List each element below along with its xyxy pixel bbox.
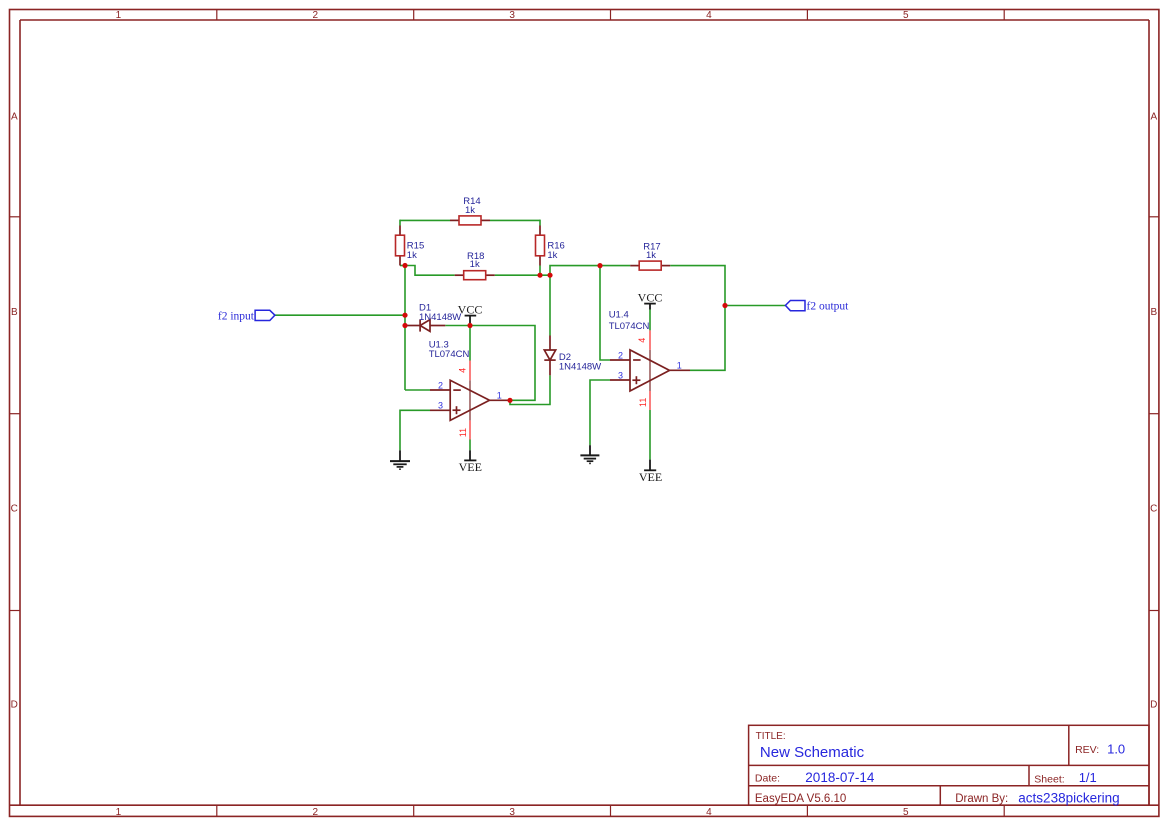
svg-text:Drawn By:: Drawn By:	[955, 793, 1008, 805]
svg-text:1: 1	[497, 391, 502, 401]
svg-text:3: 3	[509, 10, 515, 21]
power flag VCC (U1.3)	[458, 303, 483, 326]
svg-text:3: 3	[509, 807, 515, 818]
svg-text:4: 4	[706, 10, 712, 21]
svg-text:1k: 1k	[407, 250, 417, 261]
node R15 bottom	[402, 263, 407, 268]
svg-text:1: 1	[116, 807, 122, 818]
svg-text:A: A	[1150, 112, 1157, 123]
resistor R14	[450, 196, 490, 225]
wire U1.3 VEE	[469, 440, 471, 451]
svg-text:VCC: VCC	[458, 303, 483, 317]
svg-text:Date:: Date:	[755, 773, 780, 785]
junction dots	[402, 263, 727, 403]
svg-text:1: 1	[116, 10, 122, 21]
svg-text:New Schematic: New Schematic	[760, 744, 865, 761]
svg-text:VEE: VEE	[639, 470, 662, 484]
wire R16 top drop	[539, 220, 541, 226]
netflag f2 output	[785, 300, 849, 312]
node VCC-pin4-D1	[467, 323, 472, 328]
node D2 top	[547, 273, 552, 278]
svg-text:acts238pickering: acts238pickering	[1018, 791, 1119, 806]
resistor R16	[536, 226, 565, 266]
diode D1	[405, 319, 445, 331]
svg-text:C: C	[11, 504, 18, 515]
node R16 bottom	[537, 273, 542, 278]
svg-text:VCC: VCC	[638, 291, 663, 305]
svg-text:C: C	[1150, 504, 1157, 515]
svg-text:2018-07-14: 2018-07-14	[805, 770, 875, 785]
wire left vertical bus	[404, 266, 406, 391]
svg-text:TL074CN: TL074CN	[429, 349, 470, 360]
svg-text:2: 2	[313, 10, 319, 21]
svg-text:4: 4	[706, 807, 712, 818]
svg-text:REV:: REV:	[1075, 744, 1099, 756]
wire U1.4 output	[690, 306, 725, 371]
svg-text:f2 input: f2 input	[218, 311, 255, 323]
svg-text:B: B	[1150, 307, 1157, 318]
svg-text:1k: 1k	[470, 259, 480, 270]
wire node to R17	[550, 266, 630, 276]
svg-text:11: 11	[638, 398, 648, 407]
resistor R18	[455, 251, 495, 280]
svg-text:D: D	[11, 700, 18, 711]
wire feedback U1.3	[470, 326, 535, 401]
title block	[749, 725, 1149, 805]
svg-text:3: 3	[618, 371, 623, 381]
svg-text:1k: 1k	[465, 205, 475, 216]
svg-text:2: 2	[618, 350, 623, 360]
wire R17 right to f2 output	[670, 266, 785, 306]
ground (U1.4 pin3)	[580, 445, 599, 463]
wire R16 bottom green	[539, 266, 541, 276]
wire f2 input	[275, 314, 405, 316]
svg-text:5: 5	[903, 807, 909, 818]
svg-text:A: A	[11, 112, 18, 123]
op-amp U1.3	[429, 339, 510, 439]
wire top rail left	[400, 219, 450, 221]
wire U1.3 pin4	[469, 326, 471, 361]
title block text	[755, 731, 1125, 806]
svg-text:U1.4: U1.4	[609, 310, 629, 321]
svg-text:Sheet:: Sheet:	[1034, 774, 1064, 786]
netflag f2 input	[218, 310, 275, 322]
svg-text:5: 5	[903, 10, 909, 21]
svg-text:4: 4	[637, 338, 647, 343]
wire top rail right	[490, 219, 540, 221]
svg-text:EasyEDA V5.6.10: EasyEDA V5.6.10	[755, 793, 846, 805]
svg-text:3: 3	[438, 401, 443, 411]
node f2input-bus	[402, 313, 407, 318]
node U1.3 output	[507, 398, 512, 403]
svg-text:VEE: VEE	[459, 460, 482, 474]
svg-text:f2 output: f2 output	[807, 300, 850, 312]
svg-text:2: 2	[438, 380, 443, 390]
wire D2 bottom to output	[510, 375, 550, 404]
svg-text:4: 4	[458, 368, 468, 373]
power flag VEE (U1.3)	[459, 450, 482, 474]
svg-text:1N4148W: 1N4148W	[419, 312, 461, 323]
wire U1.4 VCC	[649, 310, 651, 331]
wire D1 anode to node	[445, 325, 470, 327]
svg-text:1k: 1k	[547, 250, 557, 261]
wire jog to R18	[405, 266, 455, 276]
svg-text:1k: 1k	[646, 250, 656, 261]
node R17 left	[597, 263, 602, 268]
diode D2	[544, 336, 555, 376]
svg-text:TL074CN: TL074CN	[609, 321, 650, 332]
svg-text:1N4148W: 1N4148W	[559, 362, 601, 373]
wire to U1.4 pin2	[600, 266, 610, 360]
wire D2 top	[549, 275, 551, 335]
resistor R15	[396, 226, 425, 266]
wire U1.4 VEE	[649, 410, 651, 460]
wire R15 bottom stub	[400, 265, 405, 267]
power flag VEE (U1.4)	[639, 460, 662, 484]
wire R15 top drop	[399, 220, 401, 226]
svg-text:2: 2	[313, 807, 319, 818]
wire U1.3 pin3 to gnd	[400, 410, 430, 450]
wire U1.4 pin3 to gnd	[590, 380, 610, 445]
svg-text:1: 1	[677, 361, 682, 371]
svg-text:B: B	[11, 307, 18, 318]
svg-text:1/1: 1/1	[1079, 770, 1097, 785]
ground (U1.3 pin3)	[390, 450, 410, 469]
svg-text:1.0: 1.0	[1107, 742, 1125, 757]
wire to U1.3 pin2	[405, 389, 430, 391]
svg-text:D: D	[1150, 700, 1157, 711]
op-amp U1.4	[609, 310, 690, 410]
power flag VCC (U1.4)	[638, 291, 663, 310]
node D1-bus	[402, 323, 407, 328]
node f2 output	[722, 303, 727, 308]
wire R18 right to R16 bottom node	[495, 274, 550, 276]
svg-text:11: 11	[458, 428, 468, 437]
svg-text:TITLE:: TITLE:	[756, 731, 786, 742]
resistor R17	[630, 242, 670, 270]
